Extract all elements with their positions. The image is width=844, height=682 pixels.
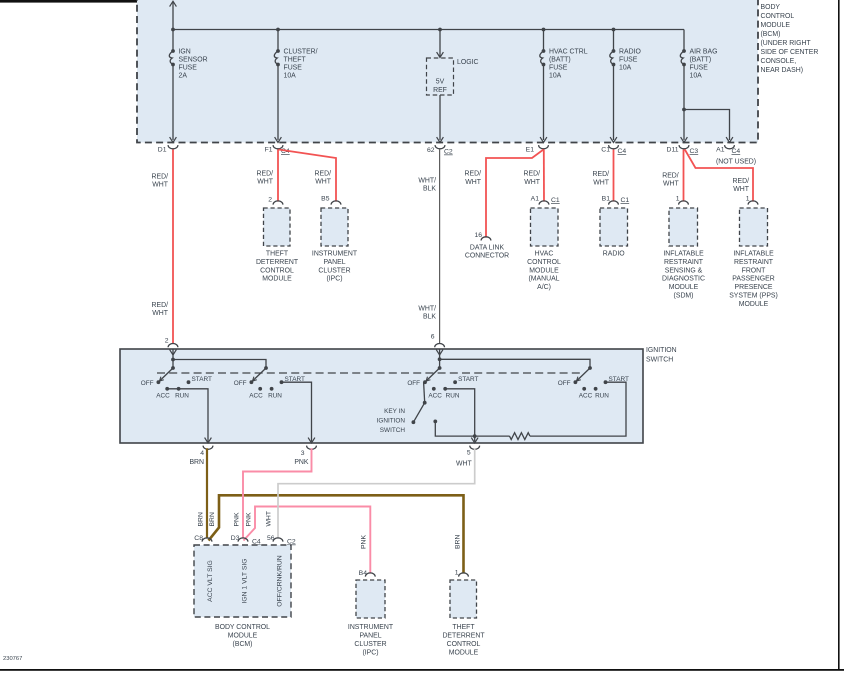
- svg-text:FUSE: FUSE: [179, 65, 198, 72]
- body control module (BCM) box: [137, 0, 758, 143]
- svg-text:(BCM): (BCM): [233, 641, 253, 648]
- wire PNK: BCM pin D3 splice to IPC pin B4: [244, 507, 371, 574]
- ignition switch section switch 4: wiper: [588, 366, 592, 370]
- svg-text:5: 5: [467, 450, 471, 457]
- svg-text:WHT: WHT: [733, 186, 749, 193]
- svg-text:RUN: RUN: [446, 393, 460, 400]
- svg-text:START: START: [192, 376, 212, 383]
- svg-text:C1: C1: [621, 197, 630, 204]
- svg-text:62: 62: [427, 147, 435, 154]
- svg-text:1: 1: [455, 570, 459, 577]
- svg-text:(BATT): (BATT): [690, 57, 712, 64]
- wire: fuse to pin F1: [277, 65, 279, 141]
- svg-text:FUSE: FUSE: [549, 65, 568, 72]
- svg-text:RED/: RED/: [524, 171, 541, 178]
- svg-text:OFF: OFF: [234, 380, 247, 387]
- pin B4 of IPC (connector cup): [365, 573, 375, 577]
- svg-text:CONTROL: CONTROL: [260, 267, 294, 274]
- wire: resistor to pin 5 junction: [475, 435, 510, 437]
- wire WHT/BLK: 62 to ignition switch pin 6: [439, 150, 441, 344]
- svg-text:WHT: WHT: [152, 310, 168, 317]
- svg-text:ACC: ACC: [428, 393, 442, 400]
- logic block 5V REF: [427, 58, 454, 95]
- junction: [438, 357, 442, 361]
- svg-text:HVAC: HVAC: [535, 251, 554, 258]
- pin 1 of theft deterrent module (connector cup): [459, 573, 469, 577]
- page frame top bar: [0, 0, 137, 3]
- svg-text:DIAGNOSTIC: DIAGNOSTIC: [662, 276, 705, 283]
- svg-text:RADIO: RADIO: [619, 49, 641, 56]
- svg-text:BODY CONTROL: BODY CONTROL: [215, 624, 270, 631]
- wire: bus to CLUSTER/THEFT FUSE: [277, 30, 279, 52]
- battery feed wire (off-page, arrow up): [172, 2, 174, 30]
- switch 2 contact START: [280, 380, 284, 384]
- pin D1 (exit arrow + connector cup): [170, 137, 177, 142]
- wire RED/WHT: D1 to ignition switch pin 2: [172, 150, 174, 344]
- wire PNK: pin 3 to BCM pin D3: [243, 448, 312, 538]
- pin E1 (exit arrow + connector cup): [540, 137, 547, 142]
- svg-text:OFF: OFF: [141, 380, 154, 387]
- switch 4 contact ACC: [582, 387, 586, 391]
- svg-text:CLUSTER: CLUSTER: [318, 267, 350, 274]
- svg-text:RED/: RED/: [465, 171, 482, 178]
- svg-text:PNK: PNK: [361, 535, 368, 549]
- wire: fuse to pin E1: [543, 65, 545, 141]
- wire: switch1 ACC-RUN to pin 4: [167, 389, 208, 442]
- wire: feed to switch 2 pivot: [173, 360, 266, 369]
- svg-text:C4: C4: [618, 148, 627, 155]
- svg-text:C1: C1: [551, 197, 560, 204]
- svg-text:C1: C1: [601, 147, 610, 154]
- svg-text:INFLATABLE: INFLATABLE: [733, 251, 774, 258]
- svg-text:CONTROL: CONTROL: [447, 641, 481, 648]
- svg-text:ACC: ACC: [156, 393, 170, 400]
- svg-text:B5: B5: [321, 196, 330, 203]
- pin 1 of SDM (connector cup): [679, 201, 689, 205]
- svg-text:WHT: WHT: [456, 461, 472, 468]
- svg-text:10A: 10A: [690, 73, 703, 80]
- wire: bus to HVAC CTRL FUSE: [543, 30, 545, 52]
- svg-text:RUN: RUN: [268, 393, 282, 400]
- svg-text:CLUSTER: CLUSTER: [354, 641, 386, 648]
- wire: bus corner to AIR BAG FUSE: [683, 30, 685, 52]
- svg-text:4: 4: [200, 450, 204, 457]
- wire RED/WHT: F1 to theft deterrent control module pin 2: [277, 150, 279, 202]
- wire WHT: pin 5 to BCM pin 56: [278, 448, 475, 538]
- page frame right border: [838, 0, 840, 670]
- svg-text:BRN: BRN: [189, 459, 204, 466]
- svg-text:C8: C8: [194, 535, 203, 542]
- svg-text:A1: A1: [716, 147, 725, 154]
- svg-text:MODULE: MODULE: [262, 276, 292, 283]
- junction: [438, 28, 442, 32]
- svg-text:RED/: RED/: [257, 171, 274, 178]
- svg-text:BRN: BRN: [209, 512, 216, 526]
- body control module (BCM) bottom box: [194, 545, 291, 617]
- HVAC control module box: [531, 208, 559, 246]
- pin F1 (exit arrow + connector cup): [275, 137, 282, 142]
- switch 3 contact OFF: [423, 380, 427, 384]
- svg-text:(UNDER RIGHT: (UNDER RIGHT: [761, 40, 812, 47]
- svg-text:START: START: [458, 376, 478, 383]
- svg-text:PANEL: PANEL: [359, 633, 381, 640]
- svg-text:WHT: WHT: [266, 511, 273, 526]
- switch 3 contact RUN: [443, 387, 447, 391]
- svg-text:10A: 10A: [284, 73, 297, 80]
- svg-text:HVAC CTRL: HVAC CTRL: [549, 49, 588, 56]
- junction: [542, 28, 546, 32]
- svg-text:CONTROL: CONTROL: [527, 259, 561, 266]
- wire: bus to 5V REF logic: [439, 30, 441, 58]
- svg-text:THEFT: THEFT: [452, 624, 475, 631]
- wire: 5V REF to pin 62: [439, 95, 441, 140]
- svg-text:WHT: WHT: [465, 179, 481, 186]
- key-in switch blade (open): [413, 403, 424, 423]
- wire BRN: BCM pin C8 splice to theft deterrent module pin 1: [209, 495, 464, 573]
- svg-text:(BATT): (BATT): [549, 57, 571, 64]
- svg-text:56: 56: [267, 535, 275, 542]
- pin A1 (exit arrow + connector cup): [726, 137, 733, 142]
- wire: feed to switch 4 pivot: [440, 359, 590, 368]
- wire: bus to RADIO FUSE: [613, 30, 615, 52]
- ignition switch section switch 3: wiper: [438, 366, 442, 370]
- svg-text:SENSING &: SENSING &: [665, 267, 703, 274]
- instrument panel cluster (IPC) bottom box: [356, 580, 385, 618]
- svg-text:SENSOR: SENSOR: [179, 57, 208, 64]
- svg-text:BLK: BLK: [423, 186, 436, 193]
- svg-text:2: 2: [268, 197, 272, 204]
- wire RED/WHT: C1 to radio pin B1: [613, 150, 615, 202]
- ignition switch box: [120, 349, 643, 443]
- svg-text:SWITCH: SWITCH: [380, 427, 406, 434]
- svg-text:SYSTEM (PPS): SYSTEM (PPS): [729, 293, 778, 300]
- svg-text:1: 1: [676, 196, 680, 203]
- svg-text:PNK: PNK: [246, 512, 253, 526]
- switch 3 contact ACC: [432, 387, 436, 391]
- svg-text:NEAR DASH): NEAR DASH): [761, 67, 804, 74]
- svg-text:PNK: PNK: [234, 512, 241, 526]
- fuse HVAC CTRL (BATT) FUSE 10A: [542, 49, 546, 53]
- svg-text:INSTRUMENT: INSTRUMENT: [348, 624, 394, 631]
- svg-text:MODULE: MODULE: [669, 284, 699, 291]
- svg-text:PRESENCE: PRESENCE: [735, 284, 773, 291]
- svg-text:WHT: WHT: [257, 179, 273, 186]
- pin A1 of HVAC control module (connector cup): [539, 201, 549, 205]
- pin D11 (exit arrow + connector cup): [681, 137, 688, 142]
- svg-text:AIR BAG: AIR BAG: [690, 49, 718, 56]
- svg-text:BRN: BRN: [198, 512, 205, 526]
- svg-text:SIDE OF CENTER: SIDE OF CENTER: [761, 49, 819, 56]
- theft deterrent control module box: [264, 208, 291, 246]
- switch 2 contact RUN: [270, 387, 274, 391]
- wire BRN: pin 4 to BCM pin C8: [206, 448, 208, 538]
- wire: bus to IGN SENSOR FUSE: [172, 30, 174, 52]
- mechanical link (dashed): [157, 372, 581, 374]
- svg-text:RUN: RUN: [175, 393, 189, 400]
- svg-text:ACC VLT SIG: ACC VLT SIG: [207, 560, 214, 602]
- svg-text:MODULE: MODULE: [449, 650, 479, 657]
- wire RED/WHT: E1 to data link connector pin 16: [486, 150, 544, 238]
- svg-text:CONSOLE,: CONSOLE,: [761, 58, 797, 65]
- instrument panel cluster (IPC) box: [321, 208, 348, 246]
- wire: switch4 START to resistor: [530, 382, 626, 436]
- pin B5 of instrument panel cluster (connector cup): [331, 201, 341, 205]
- pin B1 of radio (connector cup): [609, 201, 619, 205]
- svg-text:(SDM): (SDM): [674, 293, 694, 300]
- svg-text:INSTRUMENT: INSTRUMENT: [312, 251, 358, 258]
- pin 5 (exit arrow + connector cup): [471, 438, 478, 443]
- switch 2 contact ACC: [258, 387, 262, 391]
- svg-text:KEY IN: KEY IN: [384, 408, 405, 415]
- pin C1 (exit arrow + connector cup): [610, 137, 617, 142]
- bus wire inside BCM: [173, 29, 684, 31]
- svg-text:OFF/CRNK/RUN: OFF/CRNK/RUN: [277, 555, 284, 606]
- svg-text:PNK: PNK: [294, 459, 309, 466]
- svg-text:SWITCH: SWITCH: [646, 357, 673, 364]
- svg-text:MODULE: MODULE: [228, 633, 258, 640]
- svg-text:D1: D1: [158, 147, 167, 154]
- svg-text:WHT: WHT: [152, 182, 168, 189]
- svg-text:RED/: RED/: [662, 172, 679, 179]
- junction: [612, 28, 616, 32]
- switch 4 contact START: [604, 380, 608, 384]
- svg-text:RESTRAINT: RESTRAINT: [664, 259, 704, 266]
- data link connector cup: [481, 237, 491, 241]
- pin C8 of BCM (connector cup): [202, 538, 212, 542]
- ignition switch section switch 1: wiper: [171, 366, 175, 370]
- wire RED/WHT: E1 to HVAC control module pin A1: [543, 150, 545, 202]
- radio box: [600, 208, 628, 246]
- pin 62 (exit arrow + connector cup): [437, 137, 444, 142]
- switch 4 contact RUN: [594, 387, 598, 391]
- switch 1 contact ACC: [165, 387, 169, 391]
- page frame bottom border: [0, 669, 844, 671]
- svg-text:16: 16: [474, 232, 482, 239]
- svg-text:CONTROL: CONTROL: [761, 13, 795, 20]
- svg-text:MODULE: MODULE: [529, 267, 559, 274]
- svg-text:OFF: OFF: [558, 380, 571, 387]
- svg-text:FUSE: FUSE: [619, 57, 638, 64]
- switch 1 contact RUN: [177, 387, 181, 391]
- junction to A1 branch: [682, 108, 686, 112]
- svg-text:RESTRAINT: RESTRAINT: [734, 259, 774, 266]
- svg-text:10A: 10A: [619, 65, 632, 72]
- svg-text:OFF: OFF: [407, 380, 420, 387]
- svg-text:THEFT: THEFT: [284, 57, 307, 64]
- junction: [171, 28, 175, 32]
- svg-text:RED/: RED/: [152, 174, 169, 181]
- svg-text:A/C): A/C): [537, 284, 551, 291]
- fuse AIR BAG (BATT) FUSE 10A: [682, 49, 686, 53]
- svg-text:D11: D11: [667, 147, 679, 154]
- wire: fuse to pin C1: [613, 65, 615, 141]
- svg-text:DETERRENT: DETERRENT: [442, 633, 485, 640]
- svg-text:C2: C2: [444, 149, 453, 156]
- svg-text:PASSENGER: PASSENGER: [732, 276, 774, 283]
- svg-text:FUSE: FUSE: [690, 65, 709, 72]
- svg-text:2: 2: [165, 338, 169, 345]
- svg-text:CLUSTER/: CLUSTER/: [284, 49, 318, 56]
- svg-text:D3: D3: [231, 535, 240, 542]
- svg-text:RED/: RED/: [593, 171, 610, 178]
- fuse IGN SENSOR FUSE 2A: [171, 49, 175, 53]
- svg-text:REF: REF: [433, 87, 447, 94]
- wire: switch3 RUN to pin 5 junction: [445, 389, 475, 442]
- svg-text:C3: C3: [690, 148, 699, 155]
- svg-text:IGNITION: IGNITION: [646, 347, 677, 354]
- fuse RADIO FUSE 10A: [612, 49, 616, 53]
- svg-text:DATA LINK: DATA LINK: [470, 244, 505, 251]
- svg-text:E1: E1: [526, 147, 535, 154]
- wire: fuse to pin D11: [683, 65, 685, 141]
- key in ignition switch: [424, 382, 425, 403]
- svg-text:C4: C4: [732, 148, 741, 155]
- wire RED/WHT: D11 branch to PPS module pin 1: [685, 150, 753, 202]
- svg-text:PANEL: PANEL: [323, 259, 345, 266]
- wire RED/WHT: D11 to SDM pin 1: [683, 150, 685, 202]
- svg-text:RED/: RED/: [315, 171, 332, 178]
- pin 3 (exit arrow + connector cup): [308, 438, 315, 443]
- svg-text:ACC: ACC: [579, 393, 593, 400]
- svg-text:2A: 2A: [179, 73, 188, 80]
- svg-text:FRONT: FRONT: [742, 267, 767, 274]
- svg-text:INFLATABLE: INFLATABLE: [663, 251, 704, 258]
- svg-text:WHT: WHT: [663, 180, 679, 187]
- svg-text:1: 1: [746, 196, 750, 203]
- junction: [171, 358, 175, 362]
- svg-text:WHT/: WHT/: [418, 305, 436, 312]
- switch 1 contact OFF: [157, 380, 161, 384]
- inflatable restraint sensing and diagnostic module (SDM) box: [669, 208, 698, 246]
- switch 3 contact START: [453, 380, 457, 384]
- wire: switch2 START to pin 3: [282, 382, 312, 441]
- wire: pin 6 into switch 3 pivot: [439, 349, 441, 368]
- pin 56 of BCM (connector cup): [273, 538, 283, 542]
- svg-text:MODULE: MODULE: [739, 301, 769, 308]
- svg-text:(IPC): (IPC): [326, 276, 342, 283]
- svg-text:THEFT: THEFT: [266, 251, 289, 258]
- svg-text:A1: A1: [531, 196, 540, 203]
- svg-text:WHT: WHT: [524, 179, 540, 186]
- wire: branch to pin A1: [684, 110, 730, 141]
- svg-text:F1: F1: [265, 147, 273, 154]
- svg-text:(NOT USED): (NOT USED): [716, 159, 756, 166]
- svg-text:MODULE: MODULE: [761, 22, 791, 29]
- inflatable restraint front passenger presence system (PPS) module box: [740, 208, 768, 246]
- svg-text:RED/: RED/: [733, 178, 750, 185]
- svg-text:5V: 5V: [436, 79, 445, 86]
- svg-text:RADIO: RADIO: [603, 251, 625, 258]
- svg-text:ACC: ACC: [249, 393, 263, 400]
- svg-text:IGN 1 VLT SIG: IGN 1 VLT SIG: [242, 558, 249, 603]
- svg-text:RED/: RED/: [152, 302, 169, 309]
- switch 1 contact START: [187, 380, 191, 384]
- key-in switch fixed contact: [433, 420, 437, 424]
- junction pin 5: [473, 434, 477, 438]
- svg-text:CONNECTOR: CONNECTOR: [465, 253, 509, 260]
- svg-text:10A: 10A: [549, 73, 562, 80]
- svg-text:230767: 230767: [3, 656, 22, 662]
- svg-text:RUN: RUN: [595, 393, 609, 400]
- svg-text:BRN: BRN: [455, 535, 462, 549]
- svg-text:FUSE: FUSE: [284, 65, 303, 72]
- junction: [276, 28, 280, 32]
- pin 4 (exit arrow + connector cup): [205, 438, 212, 443]
- svg-text:WHT: WHT: [593, 179, 609, 186]
- wire: key-in contact to pin 5 junction: [435, 421, 474, 436]
- svg-text:DETERRENT: DETERRENT: [256, 259, 299, 266]
- svg-text:6: 6: [431, 334, 435, 341]
- svg-text:(IPC): (IPC): [362, 650, 378, 657]
- theft deterrent control module bottom box: [450, 580, 477, 618]
- svg-text:3: 3: [301, 450, 305, 457]
- switch 4 contact OFF: [574, 380, 578, 384]
- ignition switch section switch 2: wiper: [264, 366, 268, 370]
- switch 2 contact OFF: [250, 380, 254, 384]
- svg-text:LOGIC: LOGIC: [457, 59, 478, 66]
- pin D3 of BCM (connector cup): [238, 538, 248, 542]
- svg-text:IGN: IGN: [179, 49, 191, 56]
- svg-text:B1: B1: [602, 196, 611, 203]
- svg-text:WHT: WHT: [315, 179, 331, 186]
- pin 2 of theft deterrent module (connector cup): [273, 201, 283, 205]
- svg-text:BODY: BODY: [761, 4, 781, 11]
- svg-text:(MANUAL: (MANUAL: [528, 276, 559, 283]
- wire: pin 2 into switch 1 pivot: [172, 349, 174, 368]
- wire: fuse to pin D1: [172, 65, 174, 141]
- resistor (key-in warning): [509, 433, 529, 440]
- wire RED/WHT: F1 branch to IPC pin B5: [279, 150, 336, 202]
- svg-text:BLK: BLK: [423, 314, 436, 321]
- fuse CLUSTER/THEFT FUSE 10A: [276, 49, 280, 53]
- svg-text:(BCM): (BCM): [761, 31, 781, 38]
- svg-text:WHT/: WHT/: [418, 177, 436, 184]
- svg-text:IGNITION: IGNITION: [377, 418, 406, 425]
- pin 1 of PPS module (connector cup): [748, 201, 758, 205]
